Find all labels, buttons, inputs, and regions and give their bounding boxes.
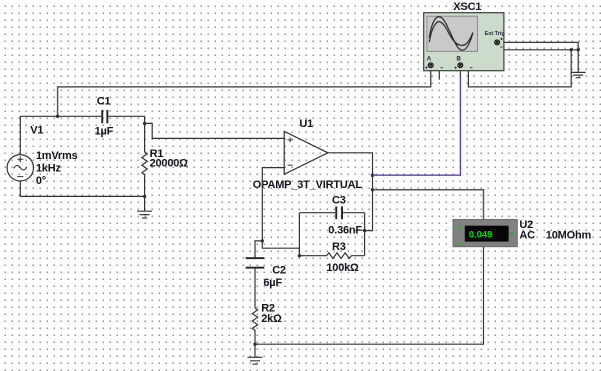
wire: ext trig - to top-right ground net: [499, 42, 578, 49]
svg-text:0°: 0°: [36, 175, 46, 187]
svg-text:V1: V1: [30, 124, 43, 136]
wire: scope channel A+ down and left to input net: [58, 66, 431, 116]
svg-text:B: B: [457, 56, 462, 62]
resistor R3 on feedback box bottom branch: [299, 253, 364, 259]
wire: feedback box left edge: [298, 213, 300, 256]
svg-text:0.049: 0.049: [469, 229, 493, 240]
wire: op-amp inverting input to feedback node: [262, 168, 284, 241]
wire: R1 top node to op-amp non-inverting input: [145, 123, 285, 138]
svg-text:A: A: [427, 56, 432, 62]
ground symbol (left): [137, 196, 152, 218]
svg-text:C1: C1: [97, 96, 111, 108]
capacitor C2: [246, 257, 265, 268]
node: junction at feedback box right edge: [363, 229, 366, 232]
capacitor C3: [335, 206, 343, 219]
svg-text:6µF: 6µF: [263, 277, 282, 289]
wire: V1 top node to C1 left plate: [20, 116, 101, 154]
svg-text:C3: C3: [332, 194, 346, 206]
op-amp U1: [284, 131, 328, 174]
wire: feedback box right edge: [364, 213, 366, 256]
wire: ext trig + to top-right ground: [497, 42, 578, 72]
svg-text:100kΩ: 100kΩ: [326, 262, 359, 274]
svg-text:AC: AC: [519, 229, 535, 241]
resistor R2: [252, 308, 257, 344]
capacitor C1: [101, 110, 108, 123]
node: junction B- net / ground net: [570, 48, 573, 51]
wire: feedback node to feedback box left edge: [262, 241, 299, 248]
svg-text:Ext Trig: Ext Trig: [485, 31, 505, 37]
svg-text:OPAMP_3T_VIRTUAL: OPAMP_3T_VIRTUAL: [253, 179, 363, 191]
svg-text:10MOhm: 10MOhm: [546, 229, 592, 241]
wire: output node to multimeter top: [373, 190, 484, 220]
node: ground junction below R1: [143, 195, 146, 198]
wire: feedback node to C2 top: [255, 241, 262, 257]
node: junction output/blue wire: [371, 174, 374, 177]
svg-text:C2: C2: [272, 264, 286, 276]
wire: scope B pin stub: [459, 65, 461, 77]
wire: blue wire op-amp output to scope channel B: [373, 77, 461, 175]
node: junction of A+ wire and V1 top wire: [56, 115, 59, 118]
multimeter U2: [453, 220, 517, 247]
svg-text:1kHz: 1kHz: [36, 163, 62, 175]
node: junction at box lower-left: [298, 254, 301, 257]
oscilloscope XSC1: [424, 13, 505, 71]
node: junction ext trig - / ground drop: [577, 48, 580, 51]
node: junction output/meter wire: [371, 188, 374, 191]
resistor R1: [142, 123, 147, 196]
wire: multimeter bottom to ground net: [255, 247, 484, 345]
node: junction at R1 top: [143, 122, 146, 125]
wire: scope channel A- stub: [433, 65, 439, 79]
ground symbol (bottom center): [248, 344, 263, 364]
wire: C2 bottom to R2 top: [254, 269, 256, 308]
svg-text:V: V: [509, 231, 514, 238]
svg-text:20000Ω: 20000Ω: [150, 158, 189, 170]
svg-text:U1: U1: [299, 118, 313, 130]
wire: feedback box top branch with C3: [299, 212, 364, 214]
wire: op-amp output to feedback box right side: [328, 153, 373, 231]
svg-text:0.36nF: 0.36nF: [328, 224, 362, 236]
wire: V1 bottom to ground node: [20, 181, 144, 196]
wire: scope channel B- to right ground net: [462, 50, 571, 87]
AC source V1: [7, 155, 33, 181]
svg-text:1µF: 1µF: [95, 125, 114, 137]
wire: C1 right plate to R1 top node: [108, 116, 144, 123]
ground symbol (top right): [571, 72, 586, 77]
node: bottom ground junction: [253, 343, 256, 346]
svg-text:XSC1: XSC1: [453, 1, 481, 13]
svg-text:R3: R3: [332, 241, 346, 253]
svg-text:1mVrms: 1mVrms: [36, 150, 78, 162]
svg-text:2kΩ: 2kΩ: [261, 313, 282, 325]
node: feedback junction: [261, 239, 264, 242]
